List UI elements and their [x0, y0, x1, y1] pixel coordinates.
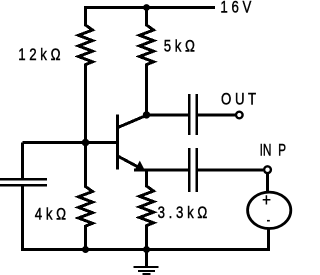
svg-text:3 . 3 k Ω: 3 . 3 k Ω	[158, 204, 208, 223]
svg-text:1 2 k Ω: 1 2 k Ω	[18, 46, 60, 65]
svg-text:IN P: IN P	[260, 142, 286, 161]
svg-text:O U T: O U T	[221, 90, 256, 109]
svg-text:1 6 V: 1 6 V	[220, 0, 252, 17]
svg-text:4 k Ω: 4 k Ω	[35, 205, 66, 224]
svg-text:5 k Ω: 5 k Ω	[164, 37, 195, 56]
